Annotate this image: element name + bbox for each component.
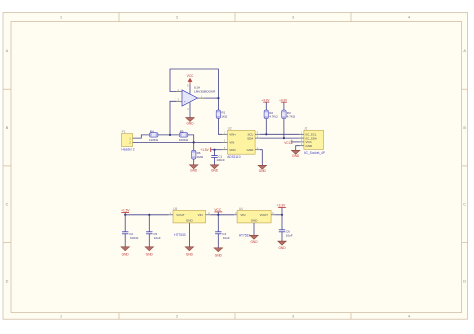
node C5 junction bbox=[148, 214, 150, 216]
svg-text:IIC_Socket_4P: IIC_Socket_4P bbox=[304, 151, 325, 155]
svg-text:R5: R5 bbox=[180, 129, 184, 133]
wire feedback loop from output to inverting input bbox=[170, 69, 218, 98]
svg-text:GND: GND bbox=[190, 169, 198, 173]
wire R6 to ground bbox=[193, 159, 195, 165]
wire down to C5 bbox=[148, 215, 150, 232]
svg-text:10uF: 10uF bbox=[223, 236, 230, 240]
svg-text:1KΩ: 1KΩ bbox=[221, 114, 228, 118]
wire U2 GND to ground bbox=[260, 150, 263, 166]
resistor R1 bbox=[216, 110, 228, 118]
svg-text:GND: GND bbox=[250, 240, 258, 244]
power +3.3V above R2 bbox=[262, 98, 270, 110]
wire P1 pin2 long rail to U2 VIN bbox=[133, 141, 223, 143]
connector J1 bbox=[300, 127, 325, 156]
ground under J1 bbox=[291, 150, 300, 158]
svg-text:GND: GND bbox=[186, 122, 194, 126]
svg-text:GND: GND bbox=[247, 148, 255, 152]
power VCC to J1 bbox=[284, 140, 300, 145]
wire U4 VOUT to +3.3V node bbox=[274, 214, 282, 216]
power +3.3V output bbox=[277, 203, 286, 214]
svg-text:1: 1 bbox=[60, 15, 62, 19]
resistor R5 bbox=[179, 129, 189, 141]
capacitor C1 bbox=[211, 155, 225, 162]
svg-text:VIN: VIN bbox=[229, 141, 234, 145]
svg-text:GND: GND bbox=[186, 218, 194, 222]
capacitor C5 bbox=[146, 232, 161, 240]
wire J1 GND pin to ground bbox=[296, 146, 300, 151]
svg-text:GND: GND bbox=[251, 218, 259, 222]
svg-text:VOUT: VOUT bbox=[260, 213, 269, 217]
wire C6 to ground bbox=[281, 232, 283, 241]
svg-text:GND: GND bbox=[215, 254, 223, 258]
wire R1 to U2 VIN+ bbox=[218, 118, 222, 134]
svg-text:2: 2 bbox=[176, 15, 178, 19]
regulator U4 bbox=[234, 207, 274, 238]
svg-text:100KΩ: 100KΩ bbox=[179, 138, 189, 142]
svg-text:GND: GND bbox=[259, 169, 267, 173]
wire SCL net bbox=[260, 133, 300, 135]
svg-text:VOUT: VOUT bbox=[176, 213, 185, 217]
capacitor C6 bbox=[279, 230, 293, 238]
svg-text:D: D bbox=[6, 279, 9, 283]
ground under U4 bbox=[250, 235, 259, 244]
svg-text:2: 2 bbox=[176, 315, 178, 319]
svg-text:HT7533: HT7533 bbox=[174, 233, 186, 237]
svg-text:GND: GND bbox=[278, 246, 286, 250]
wire op-amp output to node bbox=[204, 97, 218, 99]
wire output down to R1 bbox=[217, 98, 219, 110]
svg-text:4.7KΩ: 4.7KΩ bbox=[287, 115, 296, 119]
power +1.5V to U2 VDD bbox=[200, 147, 222, 152]
svg-text:+3.3V: +3.3V bbox=[277, 203, 286, 207]
svg-text:VDD: VDD bbox=[229, 148, 236, 152]
svg-text:GND: GND bbox=[211, 169, 219, 173]
svg-text:10uF: 10uF bbox=[286, 233, 293, 237]
svg-text:GND: GND bbox=[146, 252, 154, 256]
svg-text:1: 1 bbox=[60, 315, 62, 319]
svg-text:D: D bbox=[463, 279, 466, 283]
svg-text:HT7533: HT7533 bbox=[239, 234, 251, 238]
svg-text:4: 4 bbox=[408, 315, 410, 319]
svg-text:110KΩ: 110KΩ bbox=[149, 138, 159, 142]
svg-text:Header 2: Header 2 bbox=[121, 147, 134, 151]
svg-text:GND: GND bbox=[292, 154, 300, 158]
node R2/SCL junction bbox=[265, 133, 267, 135]
svg-text:VCC: VCC bbox=[284, 141, 291, 145]
svg-text:4.7KΩ: 4.7KΩ bbox=[269, 115, 278, 119]
svg-text:3: 3 bbox=[292, 315, 294, 319]
wire down to C4 bbox=[217, 215, 219, 232]
wire SDA net bbox=[260, 137, 300, 139]
wire U4 GND to ground bbox=[253, 223, 255, 235]
ground under C2 bbox=[121, 247, 130, 257]
ground under U2 bbox=[258, 165, 267, 173]
wire rail U5 to U4 bbox=[210, 214, 234, 216]
wire C2 to ground bbox=[124, 234, 126, 247]
power VCC op-amp bbox=[187, 74, 194, 94]
wire R4 to R5 bbox=[158, 134, 179, 136]
svg-text:+3.3V: +3.3V bbox=[279, 98, 287, 102]
wire P1 pin1 to R4 bbox=[133, 135, 150, 138]
svg-text:R4: R4 bbox=[150, 129, 154, 133]
power +1.5V output rail bbox=[121, 208, 130, 214]
resistor R4 bbox=[149, 129, 159, 141]
svg-text:100nF: 100nF bbox=[130, 236, 139, 240]
node R3/SDA junction bbox=[283, 137, 285, 139]
ground under U5 bbox=[185, 247, 194, 257]
ground under R6 bbox=[189, 165, 198, 173]
ADC U2 bbox=[222, 127, 259, 160]
wire U5 GND to ground bbox=[188, 223, 190, 247]
svg-text:VCC: VCC bbox=[187, 74, 194, 78]
wire op-amp negative supply bbox=[189, 103, 191, 118]
node output junction bbox=[217, 97, 219, 99]
svg-text:+1.5V: +1.5V bbox=[121, 208, 130, 212]
svg-text:+1.5V: +1.5V bbox=[200, 148, 209, 152]
power +3.3V above R3 bbox=[279, 98, 287, 110]
svg-text:1MΩ: 1MΩ bbox=[197, 155, 204, 159]
node rail/R6 junction bbox=[193, 141, 195, 143]
ground under C4 bbox=[214, 248, 223, 258]
wire R5 down to rail bbox=[188, 135, 194, 143]
op-amp U1A bbox=[176, 86, 216, 106]
wire R2 to SCL bbox=[265, 119, 267, 135]
svg-text:100nF: 100nF bbox=[216, 158, 225, 162]
node +3.3V/C6 junction bbox=[281, 214, 283, 216]
node VCC/C4 junction bbox=[217, 214, 219, 216]
wire bottom rail left bbox=[125, 214, 168, 216]
node VDD/C1 junction bbox=[213, 149, 215, 151]
wire C1 to ground bbox=[214, 158, 216, 165]
svg-text:4: 4 bbox=[408, 15, 410, 19]
header P1 bbox=[121, 130, 134, 151]
svg-text:GND: GND bbox=[186, 252, 194, 256]
svg-text:+: + bbox=[184, 100, 186, 104]
svg-text:ADS1110: ADS1110 bbox=[227, 155, 240, 159]
svg-text:J1: J1 bbox=[304, 127, 308, 131]
ground under op-amp bbox=[186, 118, 195, 126]
svg-text:GND: GND bbox=[306, 144, 314, 148]
wire down to C2 bbox=[124, 215, 126, 232]
svg-text:3: 3 bbox=[292, 15, 294, 19]
wire down to C6 bbox=[281, 215, 283, 230]
svg-text:A: A bbox=[6, 49, 9, 53]
ground under C5 bbox=[145, 247, 154, 257]
resistor R2 bbox=[264, 110, 278, 119]
ground under C6 bbox=[278, 241, 287, 250]
power VCC mid rail bbox=[214, 208, 222, 215]
wire C4 to ground bbox=[217, 234, 219, 248]
svg-text:GND: GND bbox=[122, 252, 130, 256]
node R4/R5 junction bbox=[169, 134, 171, 136]
regulator U5 bbox=[169, 207, 211, 237]
svg-text:C: C bbox=[6, 203, 9, 207]
svg-text:VIN+: VIN+ bbox=[229, 133, 236, 137]
svg-text:VIN: VIN bbox=[240, 213, 245, 217]
svg-text:VCC: VCC bbox=[214, 208, 221, 212]
svg-text:-: - bbox=[185, 90, 186, 94]
capacitor C4 bbox=[215, 232, 230, 240]
svg-text:B: B bbox=[6, 126, 9, 130]
resistor R6 bbox=[192, 150, 204, 159]
wire C5 to ground bbox=[148, 234, 150, 247]
svg-text:VIN: VIN bbox=[198, 213, 203, 217]
wire junction down to R6 bbox=[193, 142, 195, 150]
svg-text:10uF: 10uF bbox=[154, 236, 161, 240]
wire junction down to C1 bbox=[214, 150, 216, 156]
svg-text:SDA: SDA bbox=[247, 136, 253, 140]
capacitor C2 bbox=[122, 232, 139, 240]
svg-text:LMV358IDGKR: LMV358IDGKR bbox=[194, 90, 216, 94]
svg-text:+3.3V: +3.3V bbox=[262, 98, 270, 102]
wire non-inverting input down to junction bbox=[170, 101, 176, 135]
wire R3 to SDA bbox=[283, 119, 285, 139]
node C2 junction bbox=[124, 214, 126, 216]
resistor R3 bbox=[282, 110, 296, 119]
svg-text:C: C bbox=[463, 203, 466, 207]
ground under C1 bbox=[210, 165, 219, 173]
